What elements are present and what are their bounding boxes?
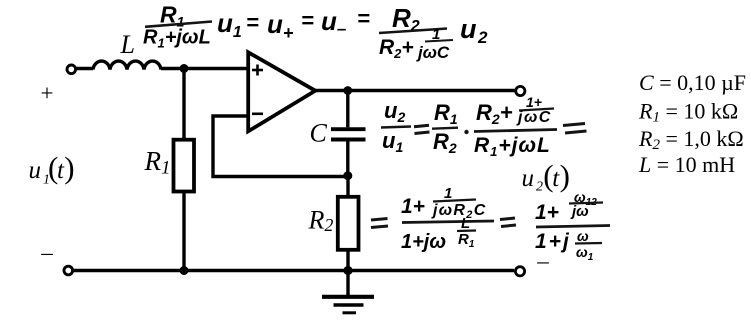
- svg-text:1+: 1+: [526, 94, 542, 110]
- wire op-amp inverting stub: [213, 116, 348, 177]
- svg-text:R1: R1: [434, 100, 458, 127]
- wire inductor to op-amp: [161, 67, 247, 70]
- svg-text:1+: 1+: [535, 201, 559, 224]
- junction dot bottom rail R1: [180, 266, 189, 275]
- svg-text:ω1: ω1: [576, 244, 594, 263]
- op-amp U1: [248, 52, 315, 131]
- svg-text:R2+: R2+: [476, 100, 513, 127]
- svg-text:C = 0,10 µF: C = 0,10 µF: [639, 70, 746, 95]
- svg-text:=: =: [246, 10, 259, 35]
- junction dot output node: [343, 86, 352, 95]
- svg-text:=: =: [301, 8, 314, 33]
- svg-text:R1+jωL: R1+jωL: [474, 134, 551, 159]
- svg-text:=: =: [357, 6, 370, 31]
- annotation row1 fraction R2/(R2+1/jwC) u2: [379, 3, 488, 62]
- resistor R1: [174, 140, 195, 192]
- capacitor C: [331, 129, 366, 139]
- junction dot bottom rail R2/ground: [343, 266, 352, 275]
- wire bottom rail: [73, 269, 514, 272]
- svg-text:+: +: [41, 81, 54, 106]
- svg-text:1: 1: [444, 185, 452, 202]
- resistor R2: [338, 197, 359, 250]
- svg-text:R1 = 10 kΩ: R1 = 10 kΩ: [638, 99, 738, 126]
- svg-text:jωC: jωC: [416, 43, 450, 62]
- svg-text:jωR2C: jωR2C: [431, 202, 487, 221]
- svg-text:u1: u1: [217, 8, 242, 41]
- svg-text:R2 = 1,0 kΩ: R2 = 1,0 kΩ: [638, 126, 744, 153]
- svg-text:R1+jωL: R1+jωL: [143, 27, 211, 51]
- svg-text:u2(t): u2(t): [522, 158, 570, 195]
- inductor L: [93, 61, 161, 69]
- svg-text:L: L: [120, 30, 135, 59]
- wire op-amp output: [315, 89, 515, 92]
- wire R1 to bottom rail: [182, 191, 185, 271]
- wire ground stub: [346, 271, 349, 297]
- ground: [322, 297, 374, 313]
- svg-text:jω: jω: [570, 203, 589, 220]
- annotation row3 = (1+w12/jw)/(1+j w/w1): [500, 189, 610, 263]
- svg-text:L = 10 mH: L = 10 mH: [638, 152, 735, 177]
- svg-text:C: C: [310, 119, 328, 148]
- svg-text:u1(t): u1(t): [29, 150, 75, 188]
- wire R2 to bottom rail: [346, 250, 349, 271]
- annotation row1 fraction R1/(R1+jwL): [143, 2, 212, 51]
- svg-text:u+: u+: [267, 9, 294, 43]
- svg-text:u–: u–: [321, 6, 347, 38]
- wire top input: [76, 67, 93, 70]
- svg-text:u1: u1: [382, 128, 403, 155]
- terminal bottom-right output: [515, 267, 524, 276]
- svg-text:R2+: R2+: [379, 36, 414, 61]
- wire capacitor to feedback node: [346, 141, 349, 177]
- wire node A down to R1: [182, 69, 185, 141]
- svg-text:–: –: [40, 240, 53, 265]
- junction dot feedback node: [343, 171, 352, 180]
- terminal top-left: [67, 65, 76, 74]
- svg-text:1+jω: 1+jω: [401, 231, 446, 253]
- svg-text:1+j: 1+j: [535, 230, 571, 253]
- svg-text:R2: R2: [308, 206, 334, 236]
- annotation row3 = (1+1/jwR2C)/(1+jw L/R1): [371, 185, 494, 253]
- node A junction dot: [180, 64, 189, 73]
- terminal top-right output: [516, 86, 525, 95]
- svg-text:jωC: jωC: [516, 109, 552, 126]
- terminal bottom-left: [64, 266, 73, 275]
- annotation row1 u1 = u+ = u- =: [217, 6, 370, 43]
- svg-text:R2: R2: [433, 129, 457, 156]
- wire feedback node to R2: [346, 177, 349, 198]
- op-amp pin -: [252, 113, 263, 116]
- svg-text:u2: u2: [460, 14, 488, 47]
- op-amp pin +: [252, 65, 263, 76]
- svg-text:R1: R1: [144, 146, 171, 179]
- svg-text:R1: R1: [458, 231, 475, 250]
- svg-text:L: L: [461, 215, 470, 232]
- svg-text:ω: ω: [577, 228, 589, 244]
- annotation row2 u2/u1 = R1/R2 . (R2+1/jwC)/(R1+jwL) =: [381, 94, 587, 159]
- svg-text:1+: 1+: [401, 195, 425, 218]
- svg-text:u2: u2: [384, 98, 405, 125]
- wire output node down to capacitor: [346, 91, 349, 128]
